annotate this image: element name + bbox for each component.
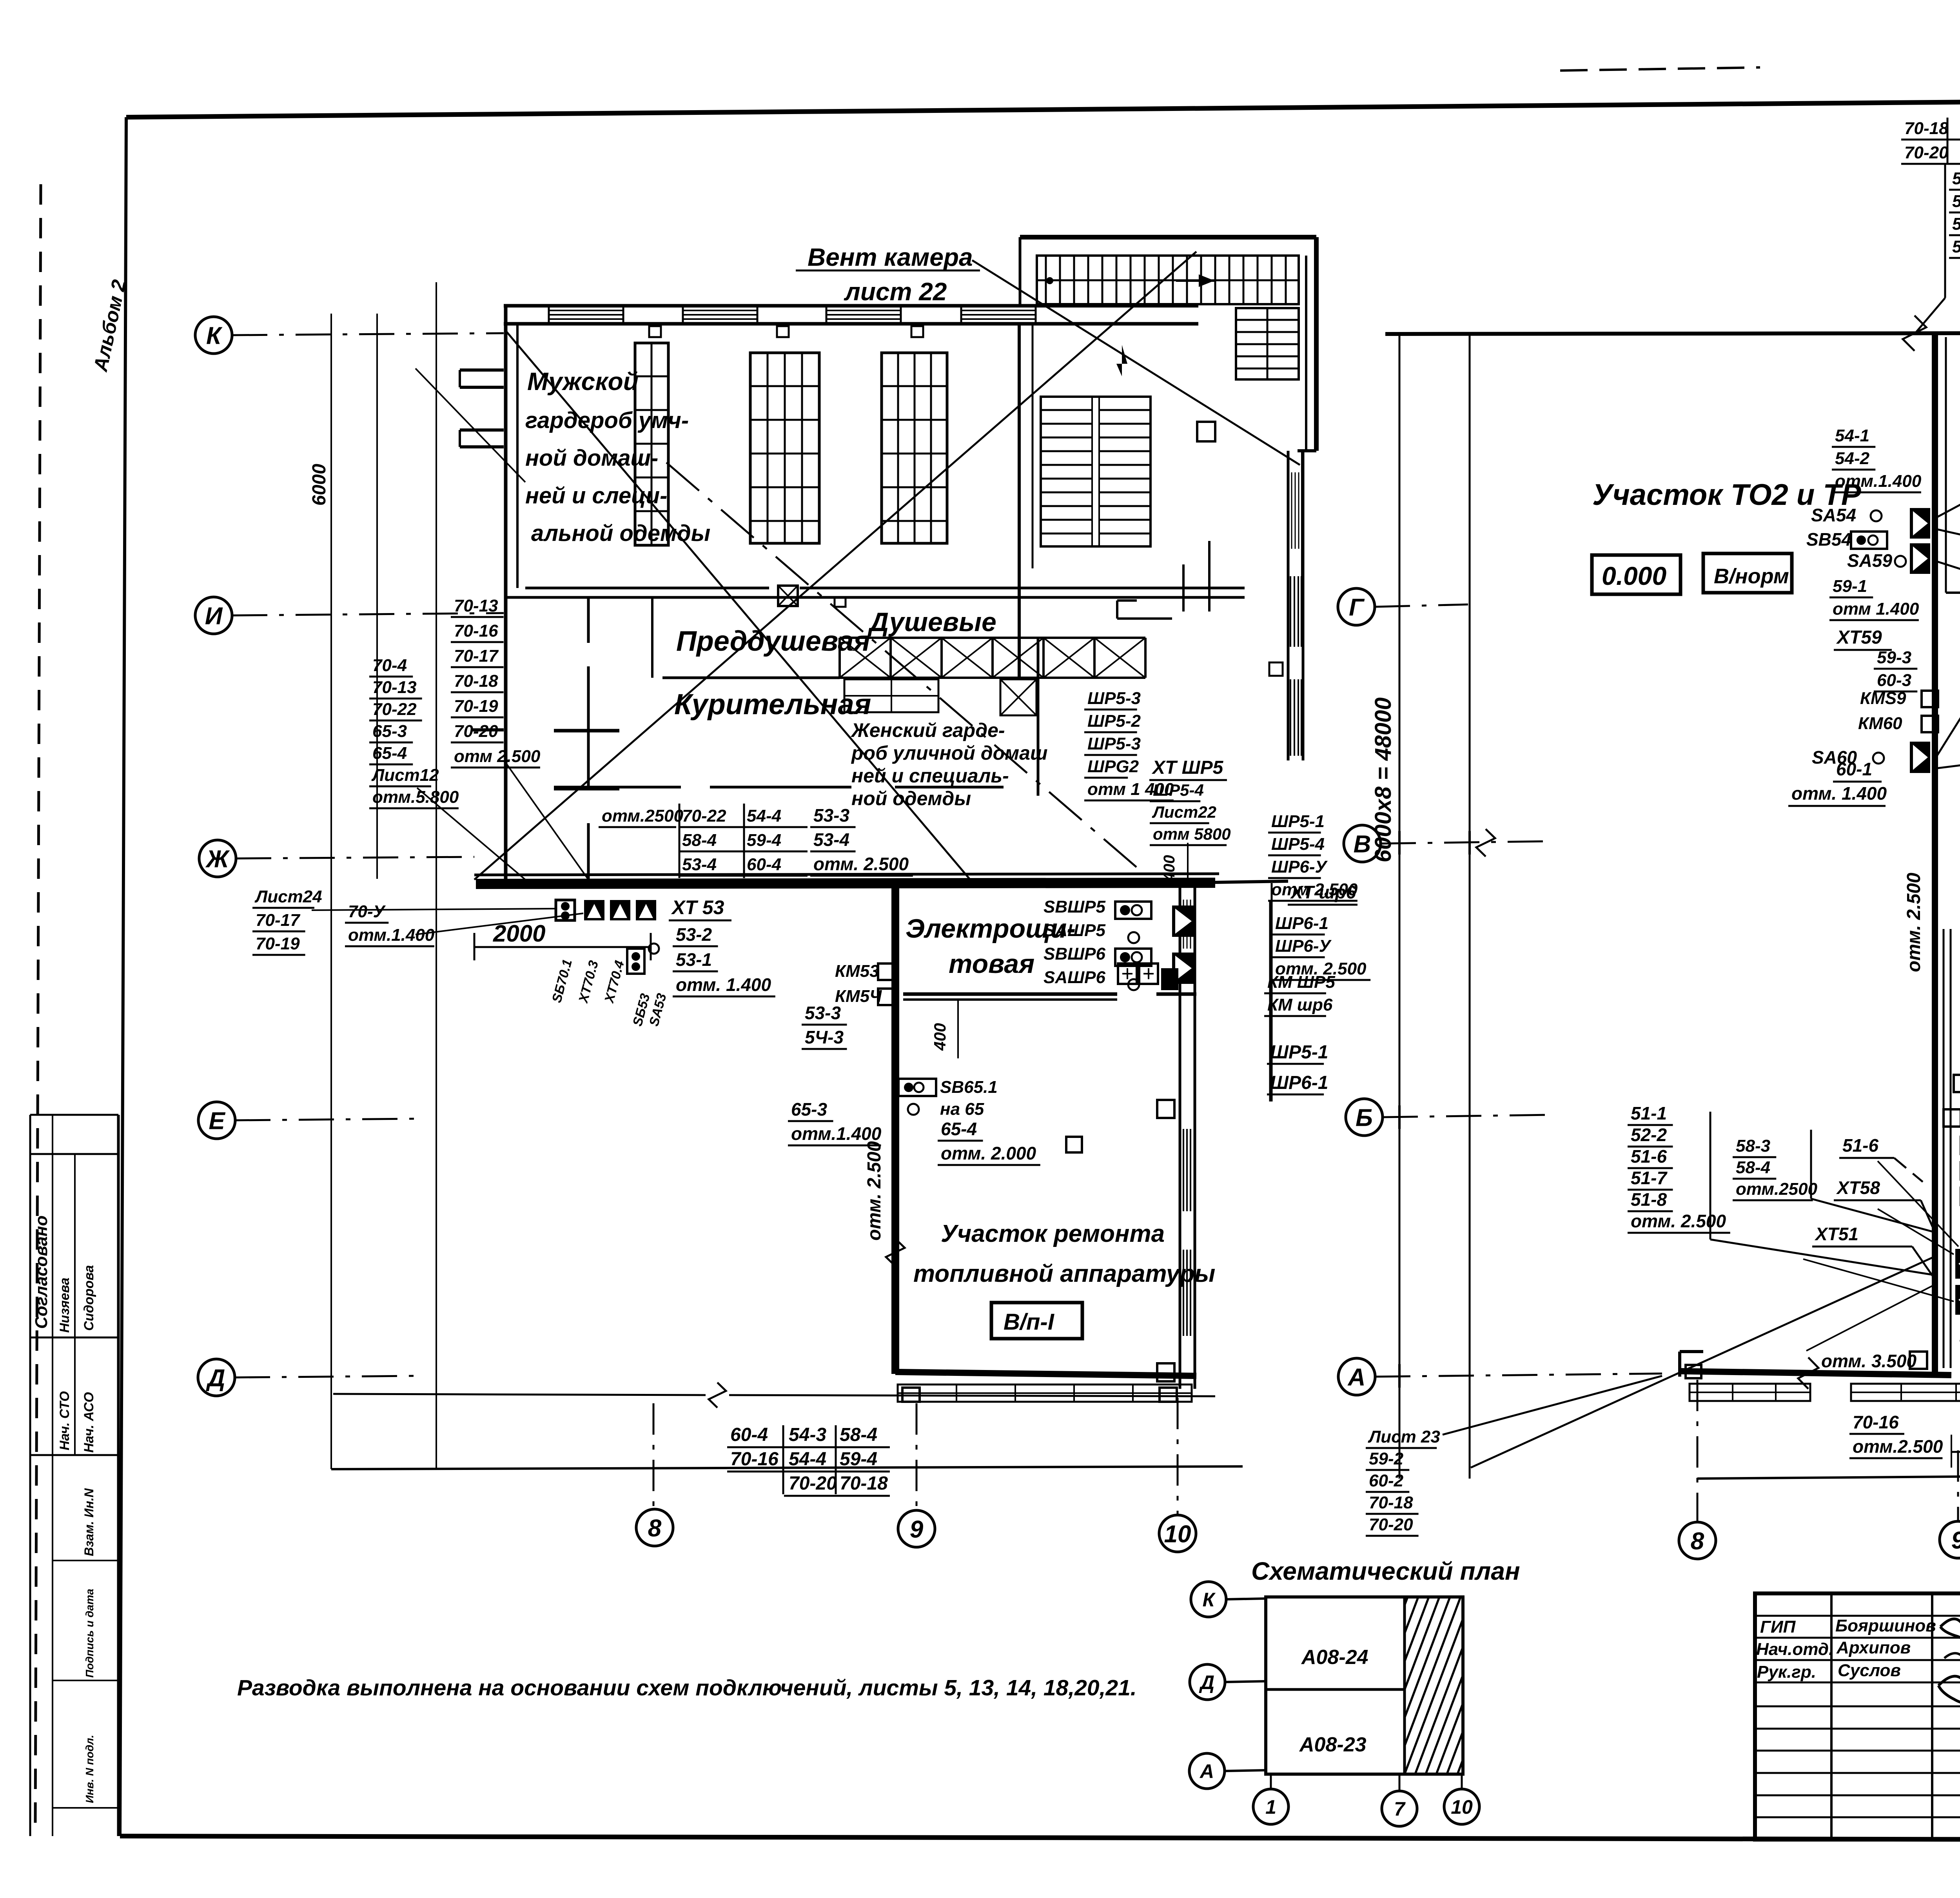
svg-text:65-3: 65-3 bbox=[372, 722, 407, 741]
svg-text:ШР5-2: ШР5-2 bbox=[1087, 711, 1141, 731]
svg-text:отм.2.500: отм.2.500 bbox=[1853, 1436, 1943, 1457]
page frame: left dashed paper edge bbox=[35, 184, 41, 1825]
axis A circle bbox=[1338, 1358, 1375, 1395]
svg-text:400: 400 bbox=[1161, 855, 1178, 882]
0.000 box bbox=[1592, 555, 1681, 594]
leader 59 stack bbox=[1936, 561, 1960, 611]
svg-text:А08-24: А08-24 bbox=[1301, 1646, 1368, 1669]
vent chamber outer wall top bbox=[1020, 235, 1316, 240]
svg-text:Суслов: Суслов bbox=[1838, 1661, 1901, 1680]
svg-text:59-4: 59-4 bbox=[840, 1449, 877, 1470]
svg-text:Е: Е bbox=[209, 1107, 225, 1134]
connector blobs XT70 group bbox=[556, 900, 575, 920]
svg-text:1: 1 bbox=[1265, 1796, 1276, 1818]
left plan: west lower stub bbox=[472, 728, 504, 731]
svg-text:товая: товая bbox=[949, 949, 1034, 979]
leader diagonal 2 bbox=[506, 332, 972, 882]
right plan bottom dimension line bbox=[1697, 1475, 1960, 1479]
svg-text:7: 7 bbox=[1394, 1798, 1406, 1820]
axis D line bbox=[235, 1376, 416, 1377]
svg-text:70-22: 70-22 bbox=[682, 806, 726, 826]
svg-text:70-13: 70-13 bbox=[372, 678, 417, 697]
svg-text:SВ54: SВ54 bbox=[1806, 529, 1851, 550]
partition T-stub a bbox=[554, 729, 619, 733]
svg-text:отм 2.500: отм 2.500 bbox=[454, 747, 541, 766]
svg-text:SА54: SА54 bbox=[1811, 505, 1856, 525]
svg-text:ХТ51: ХТ51 bbox=[1814, 1224, 1858, 1244]
svg-text:ШР6-У: ШР6-У bbox=[1275, 936, 1332, 956]
axis B circle bbox=[1346, 1099, 1383, 1136]
ground line below left plan bbox=[333, 1394, 706, 1395]
leader 54 stack bbox=[1936, 529, 1960, 557]
wardrobe rack grid 3 bbox=[882, 353, 947, 543]
svg-text:Сидорова: Сидорова bbox=[82, 1265, 96, 1331]
right plan: west thick wall bbox=[1932, 335, 1938, 1372]
svg-text:70-У: 70-У bbox=[348, 902, 386, 921]
svg-text:70-16: 70-16 bbox=[730, 1449, 779, 1470]
signatures squiggles bbox=[1940, 1619, 1960, 1639]
svg-text:отм. 2.500: отм. 2.500 bbox=[864, 1141, 885, 1241]
svg-text:70-17: 70-17 bbox=[454, 646, 499, 666]
leader 60 stack bbox=[1936, 666, 1960, 757]
svg-text:отм.1.400: отм.1.400 bbox=[348, 925, 435, 945]
svg-text:70-16: 70-16 bbox=[454, 621, 498, 641]
svg-text:9: 9 bbox=[910, 1516, 924, 1543]
axis A line bbox=[1375, 1374, 1662, 1377]
left plan: north wall band outer line bbox=[504, 304, 1198, 308]
svg-text:КМ5Ч: КМ5Ч bbox=[835, 987, 882, 1006]
svg-text:отм. 1.400: отм. 1.400 bbox=[676, 974, 771, 995]
svg-text:70-20: 70-20 bbox=[454, 722, 498, 741]
vent chamber right wall bbox=[1314, 237, 1319, 451]
electro connector triangles bbox=[1172, 905, 1195, 937]
svg-text:6000: 6000 bbox=[309, 464, 330, 506]
left plan: north wall band inner line bbox=[504, 322, 1198, 326]
svg-text:Лист24: Лист24 bbox=[254, 887, 322, 906]
svg-text:Т14: Т14 bbox=[1958, 1336, 1960, 1354]
svg-text:58-4: 58-4 bbox=[1952, 237, 1960, 256]
left plan bottom wall bbox=[895, 1372, 1196, 1376]
axis G circle bbox=[1338, 588, 1375, 625]
svg-text:Разводка выполнена на основани: Разводка выполнена на основании схем под… bbox=[237, 1675, 1137, 1700]
schematic axis A bbox=[1189, 1753, 1225, 1789]
svg-text:отм.2500: отм.2500 bbox=[602, 806, 684, 826]
repair room interior leader spine bbox=[1271, 883, 1273, 1101]
svg-text:70-18: 70-18 bbox=[1904, 119, 1949, 138]
svg-text:59-3: 59-3 bbox=[1877, 648, 1911, 667]
partition T-stub b bbox=[554, 787, 619, 791]
shower stall X-band bbox=[840, 637, 1145, 639]
electro small squares with cross bbox=[1118, 964, 1137, 984]
repair room east wall squares bbox=[1157, 1100, 1174, 1118]
corridor wall thin top line bbox=[474, 874, 1219, 875]
connector triangles 51 bbox=[1955, 1249, 1960, 1279]
svg-text:SА59: SА59 bbox=[1847, 550, 1892, 571]
svg-text:Взам. Ин.N: Взам. Ин.N bbox=[82, 1488, 96, 1556]
connector triangle 59 bbox=[1910, 543, 1930, 574]
central staircase center rails bbox=[1091, 397, 1093, 546]
right plan: north wall bbox=[1385, 333, 1960, 334]
top middle dashed line bbox=[1560, 67, 1760, 71]
svg-text:70-20: 70-20 bbox=[1369, 1515, 1413, 1534]
svg-text:ШР6-У: ШР6-У bbox=[1271, 857, 1328, 876]
svg-text:54-4: 54-4 bbox=[789, 1449, 826, 1470]
svg-text:5Ч-3: 5Ч-3 bbox=[805, 1027, 844, 1047]
schematic divider bbox=[1266, 1688, 1405, 1691]
svg-text:К: К bbox=[206, 322, 223, 349]
svg-text:Д: Д bbox=[206, 1365, 225, 1392]
svg-text:на 65: на 65 bbox=[940, 1100, 984, 1119]
svg-text:59-4: 59-4 bbox=[1952, 214, 1960, 234]
svg-text:ХТ58: ХТ58 bbox=[1836, 1178, 1880, 1198]
leader diagonal dash-dot bbox=[666, 463, 1145, 874]
axis K circle bbox=[195, 317, 232, 354]
svg-text:65-4: 65-4 bbox=[372, 744, 407, 763]
partition bottom wall segments bbox=[554, 786, 681, 789]
svg-text:Бояршинов: Бояршинов bbox=[1835, 1616, 1936, 1635]
axis V line bbox=[1381, 841, 1552, 844]
leader from vent label bbox=[972, 260, 1300, 465]
svg-text:лист 22: лист 22 bbox=[844, 278, 947, 306]
svg-text:Преддушевая: Преддушевая bbox=[676, 626, 870, 657]
svg-text:SВШР6: SВШР6 bbox=[1044, 944, 1106, 964]
svg-text:Инв. N подл.: Инв. N подл. bbox=[83, 1735, 96, 1803]
svg-text:54-3: 54-3 bbox=[1952, 192, 1960, 211]
svg-text:SВШР5: SВШР5 bbox=[1044, 897, 1106, 916]
schematic building rect bbox=[1266, 1597, 1463, 1774]
svg-text:ХТ 53: ХТ 53 bbox=[671, 896, 724, 918]
svg-text:ХТ ШР5: ХТ ШР5 bbox=[1151, 757, 1224, 778]
svg-text:ШР6-1: ШР6-1 bbox=[1270, 1072, 1328, 1093]
svg-text:51-6: 51-6 bbox=[1631, 1146, 1667, 1167]
svg-text:ШР5-4: ШР5-4 bbox=[1153, 781, 1204, 799]
svg-text:53-3: 53-3 bbox=[805, 1003, 841, 1023]
svg-text:0.000: 0.000 bbox=[1602, 561, 1666, 590]
leader spine bar right of electro bbox=[1269, 902, 1271, 1101]
svg-text:70-18: 70-18 bbox=[454, 671, 498, 691]
right plan: west wall inner line lower bbox=[1943, 929, 1945, 1368]
tick marks on axis lines bbox=[1398, 831, 1401, 855]
svg-text:54-3: 54-3 bbox=[789, 1424, 826, 1445]
svg-text:53-1: 53-1 bbox=[676, 949, 712, 970]
axis 9 right: vertical + circle bbox=[1957, 1450, 1959, 1521]
right plan bottom sill band bbox=[1690, 1384, 1810, 1401]
leader to garderob text bbox=[416, 368, 525, 482]
svg-text:И: И bbox=[205, 602, 223, 630]
left plan bottom dimension line bbox=[331, 1466, 1243, 1469]
svg-text:ШР5-1: ШР5-1 bbox=[1270, 1042, 1328, 1063]
svg-text:ШР5-1: ШР5-1 bbox=[1271, 812, 1325, 831]
schematic axis 7 bbox=[1399, 1774, 1401, 1791]
svg-text:8: 8 bbox=[648, 1515, 662, 1542]
svg-text:58-4: 58-4 bbox=[682, 831, 717, 850]
svg-text:отм. 2.500: отм. 2.500 bbox=[1631, 1211, 1726, 1231]
schematic axis 1 bbox=[1270, 1774, 1272, 1789]
top staircase arrow bbox=[1176, 279, 1214, 282]
svg-text:отм.5.800: отм.5.800 bbox=[372, 788, 459, 807]
junction box on hall wall bbox=[778, 586, 798, 606]
svg-text:54-3: 54-3 bbox=[1952, 169, 1960, 188]
vent chamber left wall bbox=[1019, 237, 1022, 306]
svg-text:70-4: 70-4 bbox=[372, 656, 407, 675]
svg-text:Б: Б bbox=[1356, 1104, 1373, 1131]
left vertical dimension line 2 bbox=[376, 314, 378, 879]
svg-text:ШРG2: ШРG2 bbox=[1087, 757, 1139, 776]
left plan: west wall bbox=[504, 306, 508, 879]
svg-text:8: 8 bbox=[1691, 1528, 1704, 1555]
electro and repair room east wall bbox=[1179, 883, 1181, 1389]
svg-text:53-4: 53-4 bbox=[682, 855, 717, 874]
svg-text:В: В bbox=[1354, 831, 1371, 858]
title block left table rows bbox=[1755, 1615, 1960, 1617]
svg-text:70-20: 70-20 bbox=[1904, 143, 1949, 162]
V/p-I box left plan bbox=[991, 1303, 1082, 1339]
svg-text:53-2: 53-2 bbox=[676, 924, 712, 945]
left plan bottom sill band bbox=[898, 1384, 1192, 1402]
leaders to XT connectors bbox=[312, 909, 556, 910]
right plan west boundary line bbox=[1469, 333, 1471, 1479]
svg-text:70-20: 70-20 bbox=[789, 1473, 837, 1494]
svg-text:59-2: 59-2 bbox=[1369, 1449, 1404, 1468]
svg-text:51-6: 51-6 bbox=[1842, 1135, 1878, 1156]
svg-text:SВ65.1: SВ65.1 bbox=[940, 1078, 998, 1097]
connector triangle 60 bbox=[1910, 742, 1930, 773]
schematic axis K bbox=[1191, 1582, 1226, 1617]
svg-text:Лист 23: Лист 23 bbox=[1368, 1427, 1440, 1446]
stair area lower structures bbox=[1117, 599, 1137, 602]
svg-text:Согласовано: Согласовано bbox=[32, 1216, 51, 1329]
svg-text:53-4: 53-4 bbox=[813, 829, 849, 850]
right plan: bottom wall thick bbox=[1680, 1371, 1951, 1375]
svg-text:В/п-I: В/п-I bbox=[1004, 1309, 1055, 1335]
axis 8 left: vertical + circle bbox=[653, 1403, 655, 1508]
schematic hatched strip bbox=[1403, 1597, 1406, 1774]
partition wall vertical 2 bbox=[651, 597, 653, 678]
svg-text:52-2: 52-2 bbox=[1631, 1125, 1667, 1145]
svg-text:роб уличной домаш: роб уличной домаш bbox=[851, 742, 1047, 764]
east staircase outline bbox=[1236, 308, 1299, 379]
dimension line 6000x8 vertical bbox=[1399, 333, 1401, 1479]
svg-text:60-2: 60-2 bbox=[1369, 1471, 1404, 1490]
single X stall bbox=[1000, 679, 1036, 715]
svg-text:60-4: 60-4 bbox=[730, 1424, 768, 1445]
svg-text:10: 10 bbox=[1164, 1521, 1191, 1548]
svg-text:58-3: 58-3 bbox=[1736, 1136, 1770, 1156]
axis V circle bbox=[1344, 825, 1381, 862]
svg-text:Курительная: Курительная bbox=[674, 688, 871, 720]
axis Zh circle bbox=[199, 840, 236, 877]
small west squares bbox=[1954, 1075, 1960, 1092]
svg-text:70-19: 70-19 bbox=[454, 697, 498, 716]
svg-text:70-19: 70-19 bbox=[256, 934, 300, 953]
svg-text:65-4: 65-4 bbox=[941, 1119, 977, 1139]
svg-text:Архипов: Архипов bbox=[1836, 1638, 1911, 1657]
window grid right of smoking room bbox=[844, 679, 938, 712]
svg-text:70-17: 70-17 bbox=[256, 911, 301, 930]
svg-text:ной одемды: ной одемды bbox=[851, 788, 971, 809]
svg-text:А: А bbox=[1347, 1364, 1366, 1391]
east partition vertical bbox=[1037, 638, 1040, 796]
page frame: bottom border line bbox=[120, 1836, 1960, 1840]
svg-text:60-3: 60-3 bbox=[1877, 671, 1911, 690]
small stub below hall wall bbox=[835, 597, 846, 607]
SB65.1 symbols bbox=[898, 1079, 936, 1096]
svg-text:Вент камера: Вент камера bbox=[808, 243, 973, 271]
repair room east wall window hatches bbox=[1183, 1129, 1184, 1211]
svg-text:65-3: 65-3 bbox=[791, 1099, 827, 1120]
squares above KM row bbox=[1944, 1109, 1960, 1127]
left vertical dimension line 3 bbox=[436, 282, 437, 1469]
partition wall vertical 1 bbox=[587, 597, 590, 643]
corner squares of bottom wall bbox=[902, 1388, 920, 1402]
axis E circle bbox=[198, 1102, 235, 1139]
svg-text:А: А bbox=[1199, 1760, 1214, 1782]
svg-text:Д: Д bbox=[1199, 1671, 1214, 1693]
page frame: left frame line bbox=[120, 117, 126, 1836]
wardrobe rack grid 2 bbox=[750, 353, 819, 543]
svg-text:Мужской: Мужской bbox=[527, 367, 639, 396]
svg-text:70-18: 70-18 bbox=[840, 1473, 888, 1494]
svg-text:70-13: 70-13 bbox=[454, 596, 498, 615]
svg-text:Женский гарде-: Женский гарде- bbox=[850, 719, 1005, 741]
svg-text:ХТ шр6: ХТ шр6 bbox=[1290, 882, 1356, 902]
svg-text:58-4: 58-4 bbox=[1736, 1158, 1770, 1177]
break symbol on west wall bbox=[886, 1239, 905, 1266]
svg-text:КМ шр6: КМ шр6 bbox=[1267, 995, 1333, 1014]
svg-text:Нач. АСО: Нач. АСО bbox=[82, 1392, 96, 1453]
east wall inner square bbox=[1269, 662, 1283, 676]
smoking room top wall bbox=[662, 677, 840, 679]
svg-text:отм 5800: отм 5800 bbox=[1153, 825, 1231, 843]
small square mid plan bbox=[1066, 1137, 1082, 1152]
svg-text:Г: Г bbox=[1349, 594, 1365, 621]
axis 8 right: vertical + circle bbox=[1697, 1380, 1699, 1522]
wardrobe rack grid 1 bbox=[635, 343, 668, 545]
svg-text:6000х8 = 48000: 6000х8 = 48000 bbox=[1370, 697, 1396, 862]
axis Zh line bbox=[236, 857, 474, 858]
leader diagonals right plan bbox=[1471, 1257, 1933, 1468]
svg-text:отм. 2.500: отм. 2.500 bbox=[1904, 873, 1924, 972]
axis K line bbox=[232, 333, 504, 335]
wall between hall and stair area bbox=[1018, 324, 1021, 680]
svg-text:гардероб умч-: гардероб умч- bbox=[525, 408, 689, 433]
left vertical dimension line 1 bbox=[330, 314, 332, 1469]
right plan bottom-left corner bbox=[1678, 1352, 1681, 1377]
svg-text:400: 400 bbox=[931, 1023, 949, 1051]
svg-text:В/норм: В/норм bbox=[1714, 564, 1789, 588]
svg-text:51-8: 51-8 bbox=[1631, 1189, 1667, 1210]
schematic axis D bbox=[1190, 1664, 1225, 1700]
top staircase treads bbox=[1045, 256, 1047, 303]
leader from top stack to wall break bbox=[1915, 298, 1945, 334]
svg-text:ШР5-3: ШР5-3 bbox=[1087, 734, 1141, 753]
V/norm box 1 bbox=[1703, 553, 1792, 593]
axis 10 left: vertical + circle bbox=[1177, 1398, 1179, 1515]
svg-text:Подпись и дата: Подпись и дата bbox=[83, 1589, 96, 1678]
svg-text:SАШР5: SАШР5 bbox=[1044, 921, 1106, 940]
leader List23 to corner bbox=[1443, 1376, 1662, 1435]
svg-text:отм 1.400: отм 1.400 bbox=[1833, 599, 1919, 619]
axis E line bbox=[235, 1119, 416, 1120]
svg-text:51-1: 51-1 bbox=[1631, 1103, 1667, 1123]
svg-text:59-4: 59-4 bbox=[747, 831, 781, 850]
svg-text:Ж: Ж bbox=[205, 846, 230, 873]
svg-text:Схематический план: Схематический план bbox=[1251, 1557, 1520, 1585]
top staircase outline bbox=[1037, 256, 1299, 304]
svg-text:отм.1.400: отм.1.400 bbox=[1835, 472, 1922, 491]
svg-text:9: 9 bbox=[1951, 1527, 1960, 1554]
svg-text:отм.2500: отм.2500 bbox=[1736, 1179, 1818, 1199]
hall column stubs bbox=[649, 326, 661, 337]
page frame: top border line bbox=[126, 97, 1960, 117]
corridor wall thick black band bbox=[476, 883, 1215, 884]
electro connectors symbols bbox=[1115, 902, 1151, 919]
svg-text:51-7: 51-7 bbox=[1631, 1168, 1668, 1188]
svg-text:54-2: 54-2 bbox=[1835, 449, 1870, 468]
left plan: west wall stub 2 bbox=[460, 428, 504, 432]
svg-text:КМS9: КМS9 bbox=[1860, 689, 1906, 708]
thick west wall of lower block bbox=[891, 883, 899, 1374]
svg-text:54-1: 54-1 bbox=[1835, 426, 1869, 445]
svg-text:54-4: 54-4 bbox=[747, 806, 781, 826]
svg-text:КМ60: КМ60 bbox=[1858, 714, 1902, 733]
axis G line bbox=[1375, 604, 1468, 607]
break on north wall bbox=[1903, 316, 1926, 351]
title block vertical lines left table bbox=[1830, 1593, 1833, 1840]
hall bottom wall (axis I row) bbox=[525, 587, 769, 590]
svg-text:КМ53: КМ53 bbox=[835, 962, 879, 981]
svg-text:59-1: 59-1 bbox=[1833, 577, 1867, 596]
svg-text:ШР5-3: ШР5-3 bbox=[1087, 689, 1141, 708]
svg-text:Лист22: Лист22 bbox=[1152, 803, 1216, 821]
connector triangle 54 bbox=[1910, 508, 1930, 539]
svg-text:Лист12: Лист12 bbox=[371, 766, 439, 785]
axis B line bbox=[1383, 1115, 1552, 1117]
svg-text:КМ ШР5: КМ ШР5 bbox=[1267, 973, 1335, 992]
svg-text:70-18: 70-18 bbox=[1369, 1493, 1413, 1512]
svg-text:70-22: 70-22 bbox=[372, 700, 417, 719]
axis D circle bbox=[198, 1359, 235, 1396]
svg-text:Нач.отд.: Нач.отд. bbox=[1756, 1640, 1833, 1659]
break on axis V bbox=[1476, 829, 1495, 856]
schematic axis 10 bbox=[1461, 1774, 1463, 1789]
svg-text:58-4: 58-4 bbox=[840, 1424, 877, 1445]
stair hall east window strip bbox=[1287, 451, 1289, 588]
svg-text:Нач. СТО: Нач. СТО bbox=[57, 1391, 72, 1450]
axis 9 left: vertical + circle bbox=[916, 1403, 918, 1509]
small symbols below connectors bbox=[627, 949, 644, 974]
svg-text:Рук.гр.: Рук.гр. bbox=[1757, 1662, 1816, 1682]
axis I circle bbox=[195, 597, 232, 634]
svg-text:ШР6-1: ШР6-1 bbox=[1275, 914, 1328, 933]
axis I line bbox=[232, 613, 504, 615]
svg-text:ной домаш-: ной домаш- bbox=[525, 445, 658, 471]
svg-text:К: К bbox=[1203, 1589, 1216, 1611]
central staircase outline bbox=[1041, 397, 1151, 546]
svg-text:ГИП: ГИП bbox=[1760, 1617, 1796, 1637]
svg-text:60-1: 60-1 bbox=[1836, 759, 1872, 779]
svg-text:53-3: 53-3 bbox=[813, 805, 849, 826]
svg-text:Участок ремонта: Участок ремонта bbox=[941, 1220, 1165, 1247]
svg-text:ХТ59: ХТ59 bbox=[1836, 627, 1882, 648]
svg-text:отм.1.400: отм.1.400 bbox=[791, 1123, 882, 1144]
wall protrusion right bbox=[1197, 422, 1215, 441]
svg-text:отм. 3.500: отм. 3.500 bbox=[1821, 1351, 1917, 1371]
svg-text:10: 10 bbox=[1451, 1796, 1473, 1818]
title block outer box bbox=[1755, 1593, 1960, 1840]
svg-text:топливной аппаратуры: топливной аппаратуры bbox=[913, 1260, 1215, 1287]
svg-text:Душевые: Душевые bbox=[867, 607, 996, 637]
